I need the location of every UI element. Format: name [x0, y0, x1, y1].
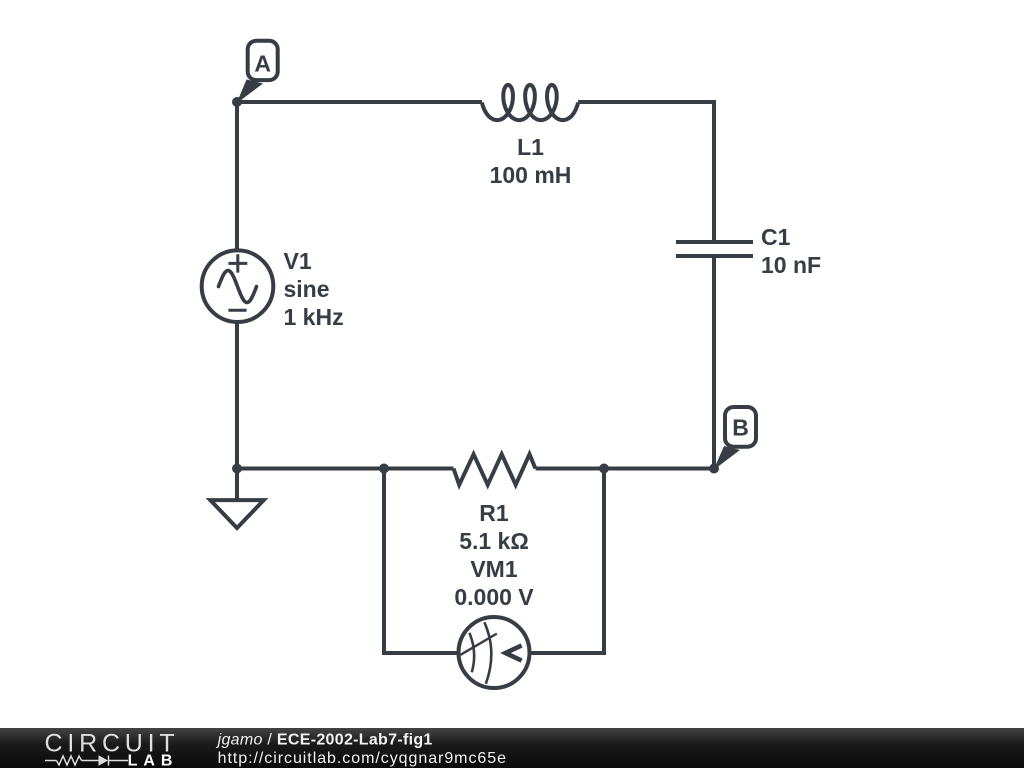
- svg-text:B: B: [732, 415, 749, 441]
- footer bar: [0, 728, 1024, 768]
- logo wire middle: [82, 760, 99, 762]
- wire left rail top: node A down to V1: [235, 102, 239, 251]
- wire capacitor down to node B: [712, 258, 716, 469]
- logo diode triangle: [99, 755, 109, 765]
- svg-text:sine: sine: [284, 276, 330, 302]
- voltmeter scale arc small: [469, 633, 474, 672]
- bottom wire right: resistor to node B: [536, 467, 715, 471]
- svg-text:VM1: VM1: [470, 556, 518, 582]
- node B flag box: [725, 407, 756, 447]
- logo resistor zigzag: [57, 756, 82, 765]
- ground stub: [235, 469, 239, 499]
- wire inductor to top-right corner and down to capacitor: [578, 102, 714, 240]
- junction dot node A: [232, 97, 242, 107]
- resistor R1 zigzag: [454, 454, 536, 485]
- voltmeter right branch wire: [529, 469, 604, 654]
- V1 plus sign: [228, 254, 247, 272]
- node A flag tail: [237, 80, 264, 104]
- svg-text:L1: L1: [517, 134, 544, 160]
- V1 sine wave: [219, 271, 257, 303]
- svg-text:5.1 kΩ: 5.1 kΩ: [459, 528, 529, 554]
- svg-text:jgamo / ECE-2002-Lab7-fig1: jgamo / ECE-2002-Lab7-fig1: [216, 732, 433, 749]
- inductor L1: [482, 85, 578, 120]
- node A flag box: [248, 41, 278, 80]
- junction dot ground node: [232, 464, 242, 474]
- svg-text:0.000 V: 0.000 V: [454, 584, 534, 610]
- wire V1 bottom to ground node: [235, 322, 239, 469]
- svg-text:1 kHz: 1 kHz: [284, 304, 344, 330]
- wire top-left to inductor: [237, 100, 482, 104]
- svg-text:10 nF: 10 nF: [761, 252, 821, 278]
- svg-text:100 mH: 100 mH: [490, 162, 572, 188]
- svg-text:C1: C1: [761, 224, 791, 250]
- svg-text:LAB: LAB: [128, 753, 179, 768]
- junction dot node B: [709, 464, 719, 474]
- voltmeter VM1 circle: [459, 617, 530, 688]
- capacitor C1 plates: [676, 240, 753, 244]
- V1 minus sign: [228, 309, 246, 312]
- voltmeter scale arc large: [484, 622, 491, 684]
- svg-text:V1: V1: [284, 248, 312, 274]
- ground triangle: [210, 500, 263, 528]
- logo wire right: [109, 760, 129, 762]
- voltmeter chevron: [506, 645, 522, 660]
- voltmeter left branch wire: [384, 469, 459, 654]
- voltage source V1 circle: [202, 250, 274, 322]
- svg-text:A: A: [254, 51, 271, 77]
- logo diode cathode bar: [108, 756, 110, 766]
- svg-text:R1: R1: [479, 500, 509, 526]
- logo circuit squiggle wire: [45, 756, 128, 766]
- bottom wire left: ground node to resistor: [237, 467, 454, 471]
- junction dot voltmeter left tap: [379, 464, 389, 474]
- junction dot voltmeter right tap: [599, 464, 609, 474]
- svg-text:http://circuitlab.com/cyqgnar9: http://circuitlab.com/cyqgnar9mc65e: [218, 750, 507, 767]
- node B flag tail: [714, 446, 741, 470]
- voltmeter needle: [461, 634, 497, 655]
